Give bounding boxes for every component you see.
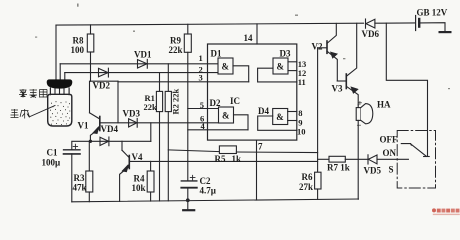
node C2 / ground junction — [186, 198, 190, 202]
svg-text:D3: D3 — [280, 48, 291, 58]
diode VD5 — [368, 155, 377, 164]
wire pin7 stub to bottom bus — [256, 140, 258, 200]
svg-text:R8: R8 — [73, 36, 84, 46]
wire D3 input loop to pin11 — [258, 68, 297, 82]
diode VD4 — [100, 137, 109, 145]
svg-text:27k: 27k — [299, 182, 313, 192]
wire V4 collector tap — [121, 141, 123, 150]
switch blade and contacts — [401, 144, 411, 146]
wire electrode 1 vertical — [59, 64, 61, 82]
svg-text:10: 10 — [297, 127, 306, 137]
watermark red logo — [432, 208, 460, 215]
loudspeaker HA — [357, 105, 359, 108]
svg-text:7: 7 — [258, 141, 263, 151]
gate D1 — [218, 58, 233, 74]
svg-text:VD4: VD4 — [101, 124, 119, 134]
battery GB — [415, 16, 417, 31]
svg-text:&: & — [276, 112, 284, 122]
svg-text:&: & — [277, 62, 285, 72]
wire V1 base line to VD3 and pin6 — [100, 122, 219, 124]
wire pin4 line — [188, 129, 248, 131]
wire speaker minus vertical down to bus — [357, 120, 359, 199]
wire electrode 2 vertical — [64, 73, 66, 82]
node V1 emitter junction — [89, 140, 92, 143]
resistor R2 — [165, 91, 171, 111]
resistor R1 — [156, 91, 162, 111]
wire R7 left lead — [318, 158, 329, 160]
svg-text:1k: 1k — [232, 154, 242, 164]
bottle cap — [47, 79, 73, 88]
svg-text:V1: V1 — [78, 120, 89, 130]
wire R8 top lead — [90, 25, 92, 34]
svg-text:+: + — [358, 98, 363, 108]
diode VD2 — [99, 68, 109, 76]
wire top bus — [56, 23, 364, 25]
diode VD3 — [129, 119, 137, 127]
bottle salt-water sensor: body — [48, 94, 72, 126]
svg-text:100: 100 — [71, 45, 85, 55]
wire R1 top lead — [159, 73, 161, 92]
liquid stipple dots — [50, 101, 70, 125]
wire VD4 line — [90, 140, 150, 142]
wire R9 top lead — [187, 24, 189, 34]
svg-text:R9: R9 — [170, 36, 181, 46]
IC box — [208, 44, 297, 140]
svg-text:3: 3 — [199, 72, 203, 82]
wire R6 bottom lead — [317, 189, 319, 199]
wire V3 base line — [337, 80, 346, 82]
svg-text:47k: 47k — [73, 183, 87, 193]
wire D3 pin13 stub — [288, 61, 297, 63]
wire bottom bus — [72, 199, 359, 202]
svg-text:IC: IC — [230, 96, 240, 106]
resistor R3 — [86, 171, 93, 192]
resistor R4 — [147, 171, 154, 192]
wire R4 bottom lead — [150, 192, 152, 201]
svg-text:VD1: VD1 — [134, 50, 152, 60]
wire pin14 stub — [256, 24, 258, 44]
svg-text:5: 5 — [200, 100, 204, 110]
wire R9 bottom long vertical to C2 — [187, 52, 189, 181]
svg-text:S: S — [389, 164, 394, 174]
svg-text:D1: D1 — [211, 48, 222, 58]
svg-text:8: 8 — [298, 108, 302, 118]
wire R5 line right to V2-base vertical — [236, 151, 317, 154]
svg-text:4.7µ: 4.7µ — [200, 186, 217, 196]
svg-text:C2: C2 — [200, 176, 211, 186]
wire bus VD6 to battery — [375, 22, 415, 24]
svg-text:D4: D4 — [258, 106, 269, 116]
resistor R7 — [329, 156, 345, 162]
wire R2 top lead — [167, 64, 169, 92]
svg-text:R5: R5 — [215, 154, 226, 164]
wire pin3 line — [118, 81, 249, 83]
wire VD5 to switch contact — [377, 158, 408, 160]
svg-text:R7 1k: R7 1k — [327, 163, 350, 173]
svg-text:V3: V3 — [332, 83, 343, 93]
wire D3 pin12 stub — [288, 70, 297, 72]
wire R7 to VD5 — [345, 158, 368, 160]
ground — [187, 200, 189, 210]
svg-text:VD3: VD3 — [123, 108, 141, 118]
svg-text:HA: HA — [377, 99, 391, 109]
bottle neck — [50, 88, 69, 95]
svg-text:R4: R4 — [134, 174, 145, 184]
capacitor C1 — [64, 149, 81, 151]
svg-text:OFF: OFF — [380, 134, 398, 144]
wire C1 bottom lead — [71, 154, 73, 202]
wire R4 stub — [150, 161, 152, 171]
wire D4 input loop to pin10 — [258, 116, 297, 130]
wire pin1 line with VD1 — [60, 63, 218, 65]
wire emitter junction to C1 — [72, 141, 91, 149]
svg-text:GB 12V: GB 12V — [417, 7, 448, 17]
svg-text:ON: ON — [383, 148, 397, 158]
wire D1 output loop — [233, 66, 249, 82]
transistor V2 (NPN) — [326, 41, 328, 53]
wire left vertical from bus to bottle cap — [55, 25, 57, 81]
svg-text:&: & — [222, 62, 230, 72]
svg-text:V4: V4 — [132, 152, 143, 162]
resistor R9 — [184, 34, 191, 52]
svg-text:1: 1 — [199, 53, 203, 63]
svg-text:VD2: VD2 — [93, 81, 111, 91]
wire V2 base line — [318, 47, 327, 49]
wire node R8/V1 collector to pin3 corner — [91, 80, 119, 82]
svg-text:100µ: 100µ — [42, 158, 62, 168]
capacitor C2 — [181, 180, 197, 182]
svg-text:10k: 10k — [132, 183, 146, 193]
wire D2 output loop — [234, 115, 249, 130]
switch S enclosure (dash-dot) — [397, 131, 435, 189]
svg-text:−: − — [357, 120, 362, 130]
svg-text:22k: 22k — [169, 45, 183, 55]
label 塑料瓶 — [19, 89, 47, 98]
svg-text:D2: D2 — [210, 98, 221, 108]
wire battery to right corner — [420, 23, 445, 32]
diode VD1 — [138, 60, 148, 68]
svg-text:VD5: VD5 — [364, 165, 382, 175]
label 盐水 — [11, 109, 30, 119]
resistor R6 — [315, 172, 321, 189]
transistor V4 (PNP) — [128, 156, 130, 169]
wire R8 bottom lead to collector node — [90, 52, 92, 81]
wire V4 base long line to R7 junction — [129, 160, 317, 162]
wire R1 bottom lead to bus — [159, 112, 161, 201]
diode VD6 on top bus — [366, 19, 375, 28]
svg-text:C1: C1 — [47, 148, 58, 158]
svg-text:R3: R3 — [74, 173, 85, 183]
transistor V3 (NPN) — [345, 74, 347, 89]
wire R5 line left — [168, 150, 219, 152]
transistor V1 (PNP) — [99, 117, 101, 131]
svg-text:&: & — [222, 111, 230, 121]
wire pin5 line — [188, 108, 219, 110]
wire R3 top lead — [88, 141, 90, 171]
gate D4 — [273, 109, 288, 125]
resistor R8 — [87, 34, 94, 52]
resistor R5 — [219, 146, 236, 154]
wire pin3 corner down to V1 base line — [117, 81, 119, 123]
wire D4 pin8 stub — [288, 111, 297, 113]
svg-text:R2 22k: R2 22k — [171, 88, 181, 114]
svg-text:R6: R6 — [302, 172, 313, 182]
wire V2 base vertical down to R5/R7 junction and R6 — [317, 48, 319, 172]
svg-text:11: 11 — [298, 77, 306, 87]
wire tap down to switch — [386, 23, 427, 156]
wire VD4 to pin6 connector vertical — [150, 123, 152, 142]
gate D3 — [273, 58, 288, 74]
wire pin2 line with VD2 — [65, 72, 218, 74]
wire R3 bottom lead — [88, 192, 90, 202]
wire R2 bottom lead to bus — [167, 112, 169, 201]
svg-text:14: 14 — [244, 33, 254, 43]
wire C2 bottom lead — [187, 188, 189, 201]
svg-text:VD6: VD6 — [362, 29, 380, 39]
wire D4 pin9 stub — [288, 120, 297, 122]
gate D2 — [219, 107, 234, 123]
svg-text:V2: V2 — [312, 41, 323, 51]
pointer line from label to liquid — [30, 106, 55, 117]
svg-text:22k: 22k — [144, 102, 158, 112]
